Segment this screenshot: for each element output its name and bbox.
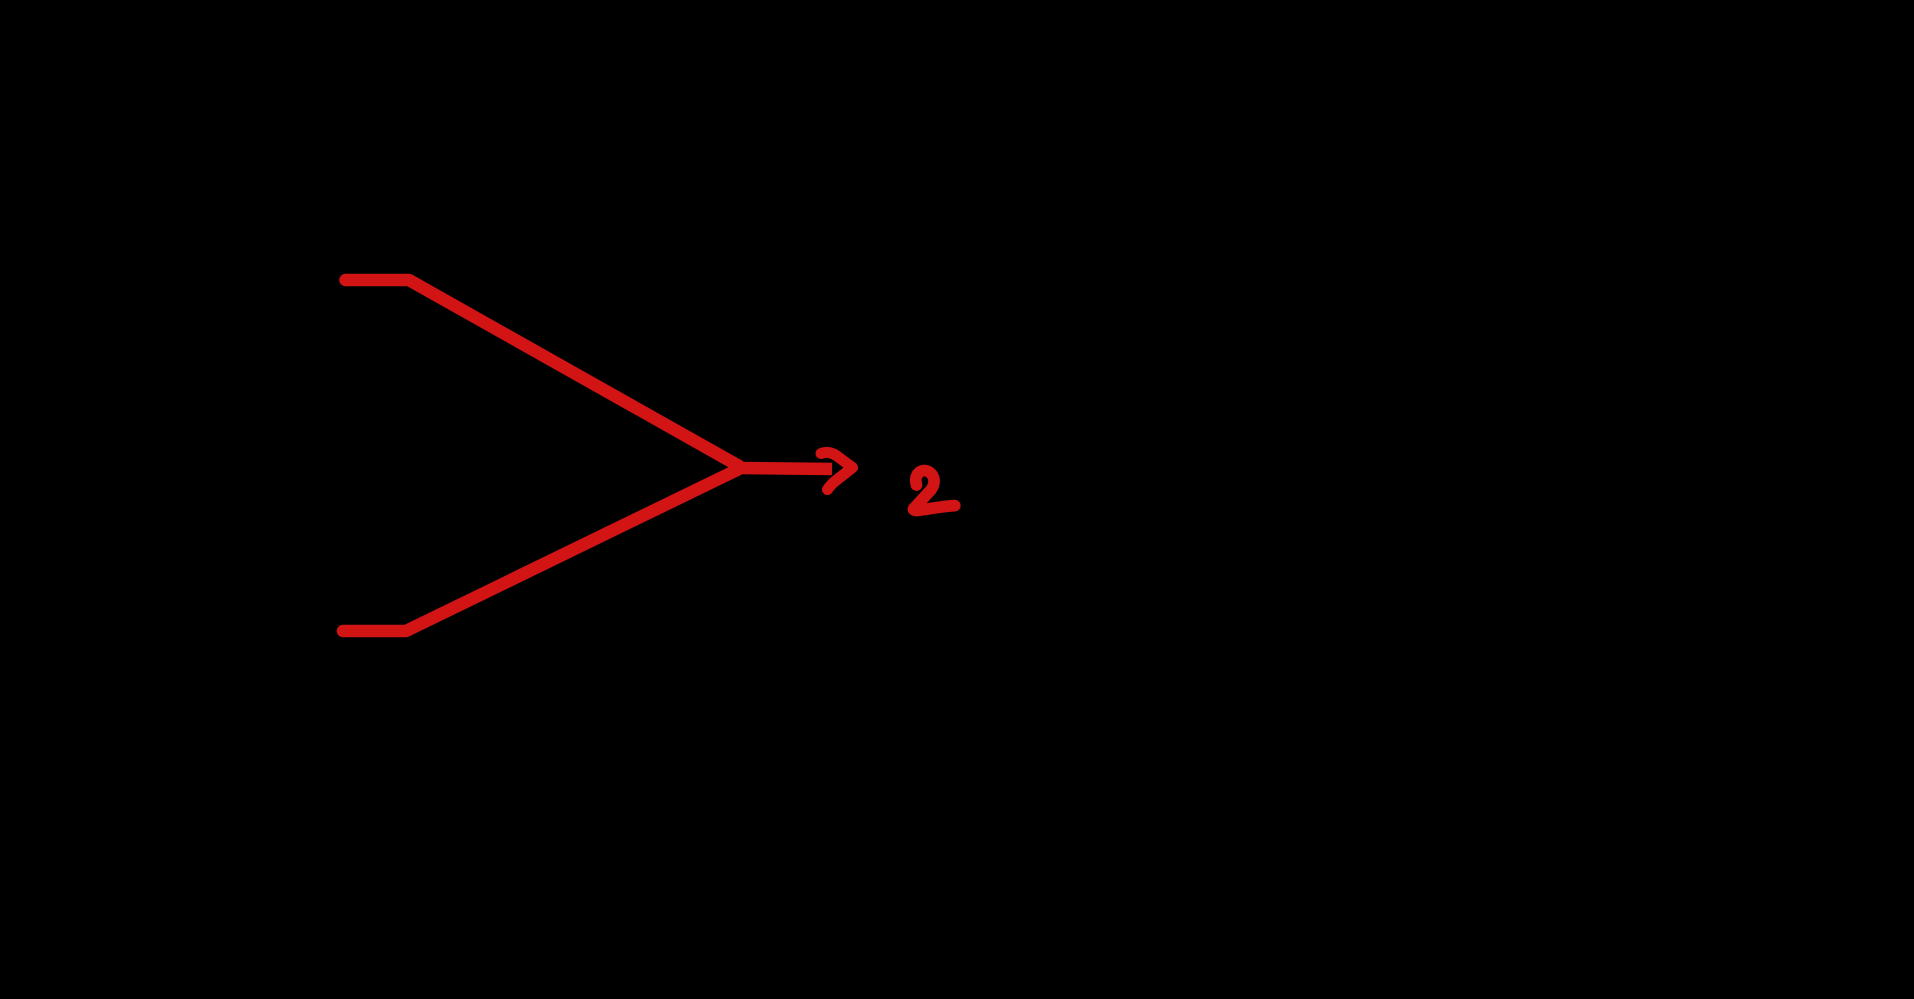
arrowhead (821, 452, 853, 489)
wire output shaft (739, 468, 832, 469)
label node 2 (913, 471, 954, 511)
wire top input (346, 280, 740, 466)
wire bottom input (343, 469, 739, 631)
